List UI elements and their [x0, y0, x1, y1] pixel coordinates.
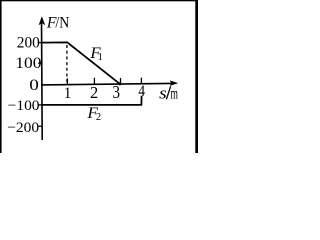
svg-text:1: 1 — [64, 84, 72, 101]
frame right line — [195, 0, 198, 153]
svg-text:3: 3 — [112, 82, 120, 102]
label F/N slash N — [55, 14, 69, 31]
node F1 meets x-axis at s=3 — [118, 82, 121, 85]
svg-text:−200: −200 — [7, 119, 39, 136]
svg-text:1: 1 — [98, 52, 103, 63]
y label 100 — [15, 54, 41, 72]
y label 0 — [29, 75, 39, 93]
svg-text:2: 2 — [90, 83, 98, 102]
y tick -100 — [38, 104, 42, 106]
x-axis — [41, 83, 171, 85]
y tick -200 — [39, 125, 43, 127]
x tick 1 — [66, 78, 68, 84]
y label 200 — [17, 34, 40, 51]
dashed line at s=1 — [66, 45, 68, 84]
svg-text:2: 2 — [96, 112, 101, 123]
label F1 italic F — [89, 44, 101, 63]
frame left line — [0, 0, 2, 153]
label s/m italic s — [159, 84, 167, 103]
x label 1 — [64, 84, 72, 101]
x label 3 — [112, 82, 120, 102]
curve F1 — [42, 42, 120, 84]
svg-text:0: 0 — [29, 75, 39, 93]
y tick 100 — [38, 62, 42, 64]
y-axis — [41, 19, 44, 140]
label F2 italic F — [86, 104, 98, 122]
svg-text:m: m — [171, 84, 179, 102]
x tick 2 — [93, 78, 95, 84]
svg-text:4: 4 — [138, 83, 145, 100]
y tick 200 — [38, 42, 42, 44]
x label 2 — [90, 83, 98, 102]
svg-text:−100: −100 — [8, 97, 40, 114]
x-axis arrowhead — [170, 80, 178, 86]
svg-text:s: s — [159, 84, 167, 103]
label s/m slash m — [166, 86, 170, 99]
curve F2 — [42, 96, 142, 105]
svg-text:/N: /N — [55, 14, 69, 31]
y-axis arrowhead — [39, 16, 46, 25]
svg-text:200: 200 — [17, 34, 40, 51]
x tick 3 — [120, 78, 122, 84]
frame top line — [0, 0, 198, 1]
y label -100 — [8, 97, 40, 114]
svg-text:100: 100 — [15, 54, 41, 72]
label F/N italic F — [46, 14, 57, 31]
x label 4 — [138, 83, 145, 100]
y label -200 — [7, 119, 39, 136]
x tick 4 — [140, 78, 142, 84]
